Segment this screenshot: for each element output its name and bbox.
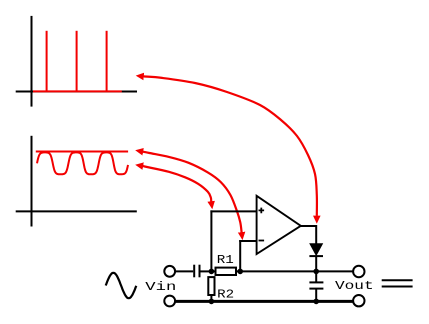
diode output junction dot [313,269,319,275]
feedback junction dot [237,269,243,275]
capacitor C1 left plate [193,265,195,278]
wire: output down to diode [315,225,317,244]
clip level line (red) [36,151,128,153]
wire: - input horizontal [239,240,256,242]
capacitor C2 bottom plate [309,288,323,290]
diode D1 cathode bar [309,255,323,257]
arrow curve A: output node to impulse graph [144,76,317,216]
wire: + input horizontal [210,210,256,212]
impulse baseline (red) [33,90,122,92]
capacitor C2 top plate [309,281,323,283]
wire: Vout node down to filter cap [315,272,317,282]
impulse spike 1 [46,31,48,92]
op-amp U1 [257,196,301,254]
graph 1 vertical axis [31,16,33,107]
graph 1 horizontal axis [16,91,137,93]
ground rail [175,300,353,303]
impulse spike 3 [106,31,108,92]
DC symbol line 1 [382,279,413,281]
arrow curve B: inverting input node to sine graph [143,152,242,233]
wire: diode to Vout line [315,256,317,271]
arrow curve C: non-inverting input node to sine graph [143,166,211,201]
terminal: Vout top [353,266,364,277]
R2 ground junction dot [209,299,215,305]
node A junction dot [209,269,215,275]
impulse spike 2 [76,31,78,92]
terminal: Vout bottom [353,295,364,306]
wire: Vin terminal to coupling cap [175,270,193,272]
wire: cap to node A [201,270,216,272]
capacitor C1 right plate [199,265,201,278]
terminal: Vin bottom [164,296,175,307]
graph 2 vertical axis [31,136,33,227]
wire: filter cap to ground rail [315,289,317,302]
svg-text:R1: R1 [217,253,234,267]
graph 2 horizontal axis [16,210,137,212]
wire: feedback node down [239,240,241,272]
wire: R2 bottom to ground rail [210,295,212,301]
cap ground junction dot [313,299,319,305]
wire: op-amp output [300,225,316,227]
wire: node A up to + input [210,210,212,271]
sine source squiggle [106,273,137,298]
svg-text:Vout: Vout [335,279,374,293]
resistor R2 [208,277,214,295]
svg-text:Vin: Vin [145,280,176,294]
op-amp + symbol [259,208,265,214]
resistor R1 [216,268,237,275]
clipped sine wave (red) [37,152,128,174]
terminal: Vin top [164,266,175,277]
svg-text:R2: R2 [217,288,234,302]
diode D1 [310,244,322,256]
wire: R1 right to Vout line [236,270,353,272]
op-amp - symbol [259,240,265,242]
DC symbol line 2 [382,286,413,288]
